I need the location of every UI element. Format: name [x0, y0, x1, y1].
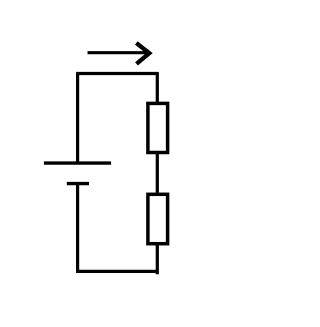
- resistor R2: [148, 194, 168, 243]
- wire between R1 and R2: [156, 153, 159, 195]
- wire left lower: [76, 184, 79, 272]
- wire bottom: [76, 270, 158, 273]
- wire left upper: [76, 74, 79, 163]
- resistor R1: [148, 103, 168, 152]
- wire right upper: [156, 74, 159, 104]
- battery V1 short plate (-): [67, 182, 89, 185]
- battery V1 long plate (+): [44, 161, 111, 164]
- wire right lower: [156, 244, 159, 275]
- current arrow I: [88, 43, 150, 64]
- wire top: [76, 72, 159, 75]
